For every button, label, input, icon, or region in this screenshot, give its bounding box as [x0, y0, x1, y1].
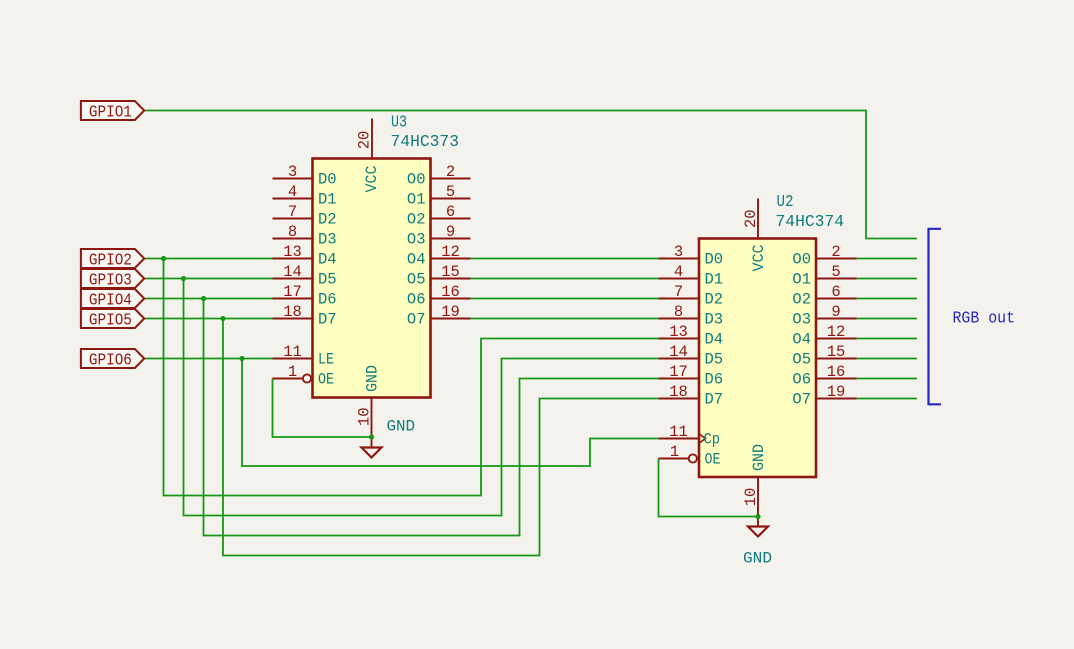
svg-text:D4: D4: [705, 331, 724, 349]
junction GPIO5: [220, 316, 225, 321]
svg-text:GPIO6: GPIO6: [89, 350, 132, 369]
svg-text:17: 17: [283, 283, 302, 301]
svg-text:9: 9: [831, 303, 840, 321]
svg-text:RGB out: RGB out: [953, 310, 1016, 329]
U2 pin 4 (D1): [659, 263, 724, 289]
svg-text:GPIO3: GPIO3: [89, 270, 132, 289]
U3 pin 11 (LE): [273, 343, 335, 369]
svg-text:12: 12: [827, 323, 846, 341]
svg-text:D1: D1: [318, 191, 337, 209]
svg-text:9: 9: [446, 223, 455, 241]
U2 pin 9 (O3): [792, 303, 856, 329]
svg-text:GND: GND: [750, 444, 768, 471]
wire U2 O7 to RGB bundle: [857, 398, 918, 400]
svg-text:Cp: Cp: [704, 431, 721, 449]
bus bracket RGB out: [929, 229, 942, 404]
U2 pin 3 (D0): [659, 243, 724, 269]
wire U3 OE to GND: [273, 379, 372, 438]
svg-text:15: 15: [441, 263, 460, 281]
svg-text:6: 6: [446, 203, 455, 221]
wire U3 O5 to U2 D1: [471, 278, 659, 280]
hierarchical label GPIO3: [81, 269, 144, 289]
U2 pin 14 (D5): [659, 343, 724, 369]
wire GPIO2 to U2 D4: [164, 259, 659, 496]
svg-text:17: 17: [669, 363, 688, 381]
svg-text:13: 13: [283, 243, 302, 261]
svg-text:GPIO1: GPIO1: [89, 102, 132, 121]
U3 pin 4 (D1): [273, 183, 337, 209]
U2 pin 2 (O0): [792, 243, 856, 269]
svg-text:10: 10: [356, 407, 374, 426]
svg-text:D7: D7: [318, 311, 337, 329]
wire GPIO6 to U3 LE: [144, 358, 272, 360]
wire GPIO3 to U3 D5: [144, 278, 272, 280]
hierarchical label GPIO6: [81, 349, 144, 369]
svg-text:O6: O6: [407, 291, 426, 309]
U3 pin 6 (O2): [407, 203, 471, 229]
svg-text:GND: GND: [387, 418, 416, 436]
U2 pin 12 (O4): [792, 323, 856, 349]
junction GPIO4: [201, 296, 206, 301]
U3 pin 16 (O6): [407, 283, 471, 309]
wire U2 O4 to RGB bundle: [857, 338, 918, 340]
hierarchical label GPIO4: [81, 289, 144, 309]
svg-text:O3: O3: [792, 311, 811, 329]
hierarchical label GPIO1: [81, 101, 144, 121]
hierarchical label GPIO2: [81, 249, 144, 269]
U3 pin 10 (GND): [356, 365, 382, 437]
svg-text:O5: O5: [407, 271, 426, 289]
svg-text:18: 18: [669, 383, 688, 401]
svg-text:D2: D2: [318, 211, 337, 229]
svg-text:D5: D5: [318, 271, 337, 289]
power symbol GND below U3: [362, 418, 416, 458]
svg-text:O6: O6: [792, 371, 811, 389]
junction U2 GND net: [755, 514, 760, 519]
wire U2 O2 to RGB bundle: [857, 298, 918, 300]
svg-text:D4: D4: [318, 251, 337, 269]
U2 pin 15 (O5): [792, 343, 856, 369]
wire U2 O0 to RGB bundle: [857, 258, 918, 260]
svg-text:3: 3: [288, 163, 297, 181]
svg-text:8: 8: [288, 223, 297, 241]
svg-text:14: 14: [283, 263, 302, 281]
U3 pin 17 (D6): [273, 283, 337, 309]
wire GPIO5 to U3 D7: [144, 318, 272, 320]
svg-text:D0: D0: [705, 251, 724, 269]
svg-text:4: 4: [674, 263, 683, 281]
svg-text:7: 7: [674, 283, 683, 301]
svg-text:D3: D3: [318, 231, 337, 249]
svg-text:13: 13: [669, 323, 688, 341]
svg-text:1: 1: [670, 443, 679, 461]
svg-text:D2: D2: [705, 291, 724, 309]
svg-text:U2: U2: [777, 192, 794, 211]
IC U3 74HC373 body: [313, 159, 431, 398]
IC U2 74HC374 body: [699, 239, 816, 478]
svg-text:8: 8: [674, 303, 683, 321]
svg-text:VCC: VCC: [750, 245, 768, 272]
svg-text:5: 5: [446, 183, 455, 201]
wire U2 O1 to RGB bundle: [857, 278, 918, 280]
svg-text:O2: O2: [407, 211, 426, 229]
svg-text:GPIO5: GPIO5: [89, 310, 132, 329]
svg-text:1: 1: [288, 363, 297, 381]
U3 pin 20 (VCC): [356, 119, 381, 193]
U2 pin 18 (D7): [659, 383, 724, 409]
svg-text:11: 11: [283, 343, 302, 361]
wire GPIO4 to U3 D6: [144, 298, 272, 300]
wire U2 O3 to RGB bundle: [857, 318, 918, 320]
svg-text:GPIO4: GPIO4: [89, 290, 132, 309]
svg-text:2: 2: [446, 163, 455, 181]
svg-text:4: 4: [288, 183, 297, 201]
U3 pin 8 (D3): [273, 223, 337, 249]
svg-text:16: 16: [827, 363, 846, 381]
svg-text:19: 19: [827, 383, 846, 401]
svg-text:74HC373: 74HC373: [391, 132, 460, 151]
svg-text:2: 2: [831, 243, 840, 261]
wire GPIO5 to U2 D7: [223, 319, 659, 556]
svg-text:O7: O7: [792, 391, 811, 409]
svg-text:D0: D0: [318, 171, 337, 189]
junction U3 GND net: [369, 434, 374, 439]
U3 pin 14 (D5): [273, 263, 337, 289]
svg-text:D3: D3: [705, 311, 724, 329]
wire GPIO1 to RGB bundle: [144, 111, 917, 239]
svg-text:O4: O4: [792, 331, 811, 349]
U3 pin 12 (O4): [407, 243, 471, 269]
U3 pin 5 (O1): [407, 183, 471, 209]
U2 pin 11 (Cp, clock): [659, 423, 721, 449]
U3 pin 7 (D2): [273, 203, 337, 229]
svg-text:VCC: VCC: [363, 166, 381, 193]
U2 pin 17 (D6): [659, 363, 724, 389]
svg-text:O1: O1: [792, 271, 811, 289]
wire U2 O5 to RGB bundle: [857, 358, 918, 360]
U2 pin 10 (GND): [742, 444, 768, 517]
svg-text:16: 16: [441, 283, 460, 301]
svg-text:6: 6: [831, 283, 840, 301]
svg-text:20: 20: [356, 131, 374, 150]
svg-text:74HC374: 74HC374: [776, 212, 845, 231]
U3 pin 1 (OE, inverted): [273, 363, 335, 389]
U2 pin 1 (OE, inverted): [659, 443, 721, 469]
U2 pin 5 (O1): [792, 263, 856, 289]
U2 pin 8 (D3): [659, 303, 724, 329]
svg-text:O3: O3: [407, 231, 426, 249]
wire U3 O6 to U2 D2: [471, 298, 659, 300]
svg-text:D6: D6: [318, 291, 337, 309]
svg-text:18: 18: [283, 303, 302, 321]
svg-text:19: 19: [441, 303, 460, 321]
svg-text:D7: D7: [705, 391, 724, 409]
svg-text:O0: O0: [792, 251, 811, 269]
U3 pin 19 (O7): [407, 303, 471, 329]
svg-text:U3: U3: [391, 113, 407, 132]
svg-text:20: 20: [742, 209, 760, 228]
wire GPIO4 to U2 D6: [204, 299, 659, 536]
svg-text:15: 15: [827, 343, 846, 361]
U2 pin 19 (O7): [792, 383, 856, 409]
U3 pin 15 (O5): [407, 263, 471, 289]
U3 pin 9 (O3): [407, 223, 471, 249]
wire GPIO2 to U3 D4: [144, 258, 272, 260]
svg-text:12: 12: [441, 243, 460, 261]
wire U2 OE to GND: [659, 459, 759, 517]
U2 pin 20 (VCC): [742, 199, 768, 272]
U2 pin 7 (D2): [659, 283, 724, 309]
svg-text:GPIO2: GPIO2: [89, 250, 132, 269]
svg-text:D1: D1: [705, 271, 724, 289]
svg-text:O5: O5: [792, 351, 811, 369]
svg-text:5: 5: [831, 263, 840, 281]
svg-text:O0: O0: [407, 171, 426, 189]
svg-text:D6: D6: [705, 371, 724, 389]
U3 pin 13 (D4): [273, 243, 337, 269]
power symbol GND below U2: [743, 517, 772, 568]
svg-text:10: 10: [742, 488, 760, 507]
svg-text:GND: GND: [364, 365, 382, 392]
U3 pin 2 (O0): [407, 163, 471, 189]
U2 pin 13 (D4): [659, 323, 724, 349]
wire GPIO3 to U2 D5: [184, 279, 659, 516]
svg-text:OE: OE: [705, 451, 721, 469]
svg-text:OE: OE: [318, 371, 334, 389]
svg-text:O4: O4: [407, 251, 426, 269]
svg-text:14: 14: [669, 343, 688, 361]
svg-text:O2: O2: [792, 291, 811, 309]
junction GPIO2: [161, 256, 166, 261]
svg-text:D5: D5: [705, 351, 724, 369]
svg-text:7: 7: [288, 203, 297, 221]
U3 pin 3 (D0): [273, 163, 337, 189]
svg-text:11: 11: [669, 423, 688, 441]
svg-text:GND: GND: [743, 550, 772, 568]
junction GPIO6: [239, 356, 244, 361]
U2 pin 6 (O2): [792, 283, 856, 309]
svg-text:3: 3: [674, 243, 683, 261]
junction GPIO3: [181, 276, 186, 281]
wire U2 O6 to RGB bundle: [857, 378, 918, 380]
wire U3 O7 to U2 D3: [471, 318, 659, 320]
wire U3 O4 to U2 D0: [471, 258, 659, 260]
hierarchical label GPIO5: [81, 309, 144, 329]
U2 pin 16 (O6): [792, 363, 856, 389]
svg-text:LE: LE: [318, 351, 334, 369]
U3 pin 18 (D7): [273, 303, 337, 329]
svg-text:O7: O7: [407, 311, 426, 329]
wire GPIO6 to U2 Cp: [242, 359, 659, 467]
svg-text:O1: O1: [407, 191, 426, 209]
